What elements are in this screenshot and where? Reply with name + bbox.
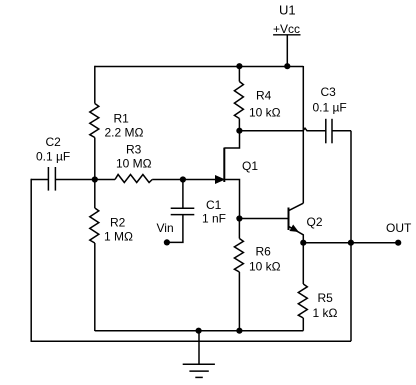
wire node to C3 with crossover hop — [239, 128, 325, 131]
node R6 rail — [236, 328, 242, 334]
resistor R4 — [234, 82, 280, 120]
svg-text:Vin: Vin — [157, 221, 174, 235]
resistor R2 — [90, 208, 133, 244]
wire feedback right column — [350, 243, 352, 342]
wire C3 right lead — [332, 130, 351, 132]
svg-text:R2: R2 — [110, 216, 126, 230]
wire R3 to node — [152, 179, 183, 181]
svg-text:OUT: OUT — [386, 221, 412, 235]
wire R5 bottom lead — [302, 318, 304, 331]
wire +Vcc stem — [286, 36, 288, 67]
svg-text:C1: C1 — [206, 198, 222, 212]
power U1 +Vcc — [273, 3, 301, 37]
transistor Q2 — [289, 203, 323, 243]
node drain R4 — [236, 128, 242, 134]
node Vcc top rail — [284, 63, 290, 69]
wire C1 bottom lead — [167, 215, 183, 243]
wire C1 top lead — [182, 180, 184, 209]
resistor R1 — [90, 104, 144, 140]
wire outer bottom rail — [31, 340, 352, 342]
node source R6 base — [236, 215, 242, 221]
node bias divider — [92, 176, 98, 182]
wire R1 to node — [94, 138, 96, 180]
svg-text:0.1 µF: 0.1 µF — [36, 149, 70, 163]
wire node to R3 — [95, 179, 115, 181]
wire emitter to OUT row — [303, 242, 398, 244]
svg-text:10 MΩ: 10 MΩ — [116, 157, 152, 171]
wire gate lead — [183, 179, 217, 181]
wire R4 bottom lead — [238, 119, 240, 131]
svg-text:C3: C3 — [321, 85, 337, 99]
resistor R6 — [234, 239, 280, 274]
capacitor C1 — [171, 198, 226, 226]
svg-text:+Vcc: +Vcc — [273, 22, 300, 36]
wire R6 top lead — [238, 219, 240, 239]
svg-text:R6: R6 — [256, 245, 272, 259]
wire ground stem — [198, 331, 200, 365]
svg-text:U1: U1 — [279, 3, 296, 18]
transistor Q1 — [216, 148, 259, 184]
svg-text:R4: R4 — [256, 89, 272, 103]
wire C3 right to OUT node — [350, 131, 352, 243]
svg-text:Q1: Q1 — [242, 159, 258, 173]
node R4 top rail — [236, 63, 242, 69]
wire R2 to inner rail — [94, 243, 96, 331]
node feedback OUT — [348, 240, 354, 246]
terminal OUT — [386, 221, 412, 246]
wire collector column — [302, 66, 304, 203]
svg-text:1 MΩ: 1 MΩ — [104, 230, 133, 244]
svg-text:0.1 µF: 0.1 µF — [313, 101, 347, 115]
ground — [183, 364, 215, 377]
svg-text:R5: R5 — [318, 291, 334, 305]
terminal Vin — [157, 221, 174, 245]
wire left bias column upper — [94, 66, 96, 104]
svg-text:C2: C2 — [46, 135, 62, 149]
wire base row — [240, 218, 289, 220]
wire C2 left lead — [31, 179, 48, 181]
svg-text:R3: R3 — [126, 143, 142, 157]
svg-text:1 kΩ: 1 kΩ — [313, 306, 338, 320]
resistor R3 — [115, 143, 152, 183]
svg-text:Q2: Q2 — [307, 215, 323, 229]
resistor R5 — [298, 284, 337, 320]
wire C2 to node — [55, 179, 94, 181]
wire R5 top lead — [302, 243, 304, 284]
wire node to R2 — [94, 180, 96, 209]
wire left outer column — [30, 179, 32, 341]
wire R4 top lead — [238, 67, 240, 82]
capacitor C2 — [36, 135, 70, 191]
wire Q1 source lead — [224, 180, 239, 219]
svg-text:10 kΩ: 10 kΩ — [249, 260, 281, 274]
svg-text:10 kΩ: 10 kΩ — [249, 106, 281, 120]
svg-text:R1: R1 — [114, 112, 130, 126]
wire top rail — [95, 66, 304, 68]
svg-text:1 nF: 1 nF — [202, 212, 226, 226]
node emitter R5 — [300, 240, 306, 246]
wire inner bottom rail — [95, 330, 303, 332]
node gate C1 — [180, 176, 186, 182]
wire Q1 drain lead — [224, 131, 239, 148]
svg-text:2.2 MΩ: 2.2 MΩ — [105, 126, 144, 140]
capacitor C3 — [313, 85, 347, 143]
node ground rail — [196, 328, 202, 334]
wire R6 bottom lead — [238, 272, 240, 331]
